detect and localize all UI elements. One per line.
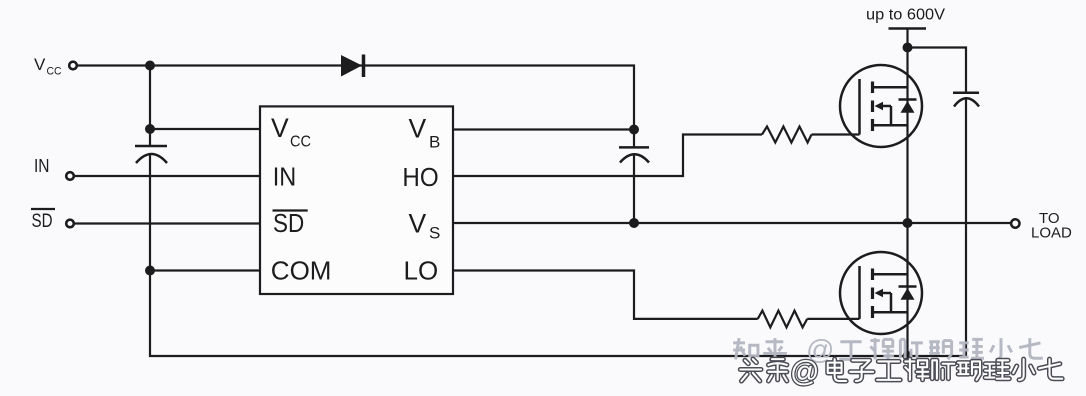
wire COM — [150, 269, 260, 271]
watermark toutiao line — [740, 356, 1062, 388]
overline SD pin — [273, 209, 308, 211]
wire R2 to gate Q2 — [807, 318, 859, 320]
terminal SD — [66, 220, 74, 228]
terminal VCC — [69, 62, 77, 70]
MOSFET Q1 circle — [840, 65, 922, 147]
terminal TO LOAD — [1011, 219, 1019, 227]
junction dot D (634,129.5) — [629, 125, 639, 135]
svg-text:SD: SD — [32, 211, 53, 232]
diode D1 — [341, 55, 364, 78]
capacitor C3 bus — [953, 93, 979, 356]
resistor R1 — [762, 127, 812, 143]
terminal IN — [66, 172, 74, 180]
wire HO with jog — [453, 135, 762, 177]
svg-text:V: V — [409, 113, 427, 143]
pin label VB — [409, 113, 441, 151]
capacitor C2 bootstrap — [619, 130, 649, 224]
svg-text:IN: IN — [273, 161, 297, 191]
wire to bus capacitor — [908, 48, 967, 93]
wire HV vertical — [906, 29, 908, 357]
overline SD input — [31, 208, 55, 210]
pin label VCC — [271, 113, 311, 150]
junction dot H (907.5,356) — [903, 351, 913, 361]
pin label VS — [409, 208, 441, 242]
wire R1 to gate Q1 — [812, 133, 860, 135]
MOSFET Q2 internals — [860, 266, 917, 319]
svg-text:LO: LO — [404, 255, 439, 285]
svg-text:V: V — [34, 55, 46, 74]
junction dot G (907.5,223) — [903, 218, 913, 228]
junction dot E (907.5,47.5) — [903, 43, 913, 53]
IC U1 box — [260, 106, 453, 294]
svg-text:COM: COM — [271, 255, 332, 285]
junction dot C (150,270.5) — [145, 266, 155, 276]
wire left vertical lower and bottom rail — [150, 154, 966, 356]
wire VCC rail — [77, 66, 635, 130]
svg-text:V: V — [271, 113, 289, 143]
label TO LOAD — [1031, 210, 1072, 242]
MOSFET Q1 internals — [860, 79, 917, 135]
svg-text:up to 600V: up to 600V — [866, 7, 946, 24]
MOSFET Q2 circle — [840, 252, 922, 334]
svg-text:@: @ — [790, 356, 819, 388]
svg-text:IN: IN — [34, 156, 50, 176]
svg-text:CC: CC — [47, 66, 62, 78]
svg-text:LOAD: LOAD — [1031, 225, 1072, 242]
wire VB — [453, 128, 634, 130]
wire VCC pin — [150, 128, 260, 130]
junction dot F (634,223) — [629, 218, 639, 228]
wire SD — [74, 222, 261, 224]
capacitor C1 — [135, 146, 167, 163]
label VCC input — [34, 55, 62, 78]
wire IN — [74, 175, 261, 177]
svg-text:S: S — [429, 224, 440, 243]
junction dot B (150,129) — [145, 124, 155, 134]
svg-text:CC: CC — [290, 133, 311, 150]
label SD input — [32, 211, 53, 232]
svg-text:V: V — [409, 208, 427, 238]
junction dot A (150,65.5) — [145, 61, 155, 71]
wire LO with jog — [453, 271, 758, 319]
svg-text:HO: HO — [402, 162, 438, 192]
HV terminal bar — [889, 27, 927, 30]
wire left vertical upper — [149, 66, 151, 147]
svg-text:SD: SD — [273, 208, 304, 238]
resistor R2 — [758, 311, 808, 328]
wire VS — [453, 222, 1011, 224]
svg-text:B: B — [429, 133, 440, 152]
watermark zhihu line — [733, 334, 1043, 365]
